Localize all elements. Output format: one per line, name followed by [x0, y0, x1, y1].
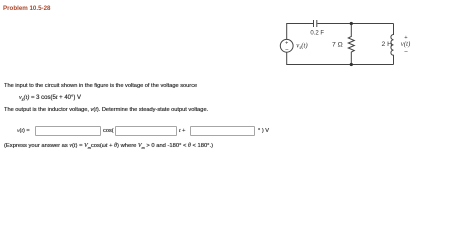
resistor R 7ohm branch: [348, 24, 354, 65]
paragraph line 2: [4, 107, 208, 113]
wire top-right segment: [317, 23, 393, 25]
svg-text:vs(t): vs(t): [296, 43, 308, 52]
inductor L 2H branch: [391, 24, 394, 65]
svg-text:7 Ω: 7 Ω: [332, 42, 343, 49]
footnote line: [4, 143, 213, 150]
node bottom junction: [350, 63, 353, 66]
circuit schematic: [0, 0, 474, 156]
paragraph line 1: [4, 83, 197, 89]
svg-text:v(t): v(t): [401, 41, 411, 48]
voltage source Vs circle: [280, 39, 293, 52]
answer row label v(t) =: [17, 128, 30, 134]
title Problem 10.5-28: [3, 5, 50, 12]
capacitor C 0.2 F: [313, 20, 315, 27]
svg-text:+: +: [285, 41, 288, 47]
svg-text:2 H: 2 H: [382, 41, 393, 48]
wire bottom-left: [287, 52, 394, 64]
answer row label t +: [179, 128, 185, 134]
answer row label cos(: [103, 128, 114, 134]
answer row label degree V: [258, 128, 269, 134]
svg-text:−: −: [285, 48, 289, 54]
equation vs(t) = 3 cos(5t + 40) V: [19, 95, 81, 103]
svg-text:0.2 F: 0.2 F: [310, 30, 324, 36]
input box 1: [35, 126, 101, 136]
input box 3: [190, 126, 255, 136]
input box 2: [115, 126, 177, 136]
svg-text:−: −: [404, 48, 408, 55]
node top junction: [350, 22, 353, 25]
wire top-left segment: [287, 24, 313, 40]
